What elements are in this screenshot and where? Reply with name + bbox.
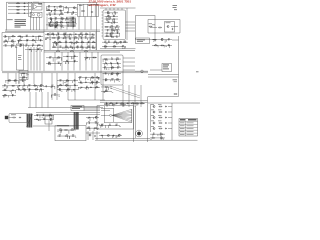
resistor R49: [18, 35, 22, 38]
section border top-left: [7, 2, 45, 30]
label: [137, 104, 138, 107]
wire: [67, 52, 69, 71]
label: [4, 96, 5, 99]
label: [122, 44, 124, 47]
label: [85, 87, 87, 90]
sub-board title label: [57, 125, 69, 126]
label: [113, 14, 115, 17]
resistor R57: [70, 50, 74, 53]
diode D15: [92, 34, 93, 35]
wire: [106, 42, 108, 44]
line filter box: [9, 114, 27, 123]
wire: [46, 17, 48, 30]
chopper transformer T4: [74, 112, 79, 130]
label: [96, 85, 97, 88]
capacitor C11: [58, 33, 59, 35]
wire: [86, 38, 88, 40]
wire: [116, 74, 118, 76]
resistor R71: [13, 79, 17, 82]
resistor R74: [65, 84, 69, 87]
resistor R59: [153, 38, 157, 41]
diode D41: [74, 56, 75, 57]
flyback winding wire: [131, 109, 133, 123]
wire: [81, 34, 83, 36]
wire: [89, 58, 91, 60]
bus wire H2: [2, 72, 148, 74]
diode D56: [85, 82, 86, 83]
diode D13: [75, 34, 76, 35]
label: [32, 38, 34, 41]
wire: [123, 65, 135, 67]
wire: [45, 33, 95, 35]
wire: [51, 10, 53, 12]
resistor R31: [65, 46, 69, 49]
label: [50, 25, 52, 28]
wire: [57, 85, 59, 88]
wire diagonal: [110, 88, 140, 98]
label: [68, 8, 69, 11]
label: [4, 36, 6, 39]
mains plug P1: [5, 116, 8, 119]
label: [163, 64, 169, 67]
wire: [102, 46, 126, 48]
sub-board box: [55, 126, 86, 141]
capacitor C2: [23, 6, 25, 7]
wire: [84, 58, 86, 61]
capacitor C12: [81, 37, 82, 39]
label: [108, 68, 110, 71]
label: [61, 16, 63, 19]
wire: [152, 39, 172, 41]
IC U301: [17, 44, 24, 70]
label: [108, 103, 109, 106]
label: [99, 78, 100, 81]
transistor Q16: [161, 39, 163, 41]
wire: [55, 25, 57, 27]
note label 3: [15, 22, 26, 25]
mains transformer T1: [27, 114, 33, 128]
title row value: [187, 122, 194, 125]
wire: [157, 134, 159, 136]
wire: [86, 116, 99, 118]
resistor R42: [104, 45, 108, 48]
pin wire: [113, 8, 115, 10]
label: [88, 4, 91, 7]
label: [119, 125, 121, 128]
section divider: [147, 97, 149, 143]
wire: [86, 127, 99, 129]
resistor R14: [50, 25, 54, 28]
wire: [168, 106, 172, 108]
diode D4: [54, 14, 55, 15]
resistor R6: [81, 10, 85, 13]
wire: [100, 48, 136, 50]
module box IF1: [19, 71, 28, 80]
label: [54, 22, 55, 25]
wire: [105, 12, 119, 14]
resistor R12: [59, 21, 63, 24]
wire: [50, 10, 52, 12]
resistor R96: [94, 127, 98, 130]
label: [116, 31, 118, 34]
transistor Q28: [153, 105, 155, 107]
label: [96, 80, 98, 83]
wire: [28, 45, 30, 47]
label: [4, 34, 5, 37]
wire: [98, 78, 100, 80]
label: [151, 109, 154, 112]
diode D21: [113, 16, 114, 17]
transistor Q801 horizontal output: [110, 114, 112, 116]
label: [111, 77, 113, 80]
wire: [89, 128, 91, 131]
wire: [111, 13, 113, 15]
wire: [91, 82, 93, 84]
pin wire: [102, 23, 104, 25]
resistor R38: [110, 32, 114, 35]
resistor R20: [85, 33, 89, 36]
wire: [23, 73, 25, 84]
wire: [89, 117, 91, 121]
label: [26, 34, 28, 37]
wire: [111, 36, 113, 38]
title row label: [180, 122, 185, 125]
label: [49, 12, 51, 15]
label: [106, 43, 107, 46]
label: [110, 74, 111, 77]
pin wire: [126, 21, 136, 23]
label: [49, 113, 51, 116]
wire: [51, 86, 53, 88]
label: [85, 35, 87, 38]
diode D53: [74, 85, 75, 86]
label: [152, 24, 155, 27]
label: [160, 132, 162, 135]
label: [18, 56, 21, 59]
wire: [122, 85, 124, 107]
wire: [44, 38, 46, 40]
label: [43, 117, 45, 120]
wire: [25, 49, 43, 51]
diode D75: [153, 134, 154, 135]
wire: [22, 86, 24, 89]
section border: [100, 7, 136, 9]
wire: [118, 33, 120, 36]
label: [116, 101, 118, 104]
wire: [71, 81, 73, 83]
label: [67, 87, 69, 90]
label: [88, 117, 89, 120]
resistor R5: [38, 3, 42, 6]
wire: [104, 80, 106, 82]
resistor R70: [7, 79, 11, 82]
wire: [7, 73, 9, 84]
wire: [123, 103, 125, 106]
wire: [16, 89, 44, 91]
wire: [52, 115, 54, 119]
label: [91, 35, 93, 38]
diode D62: [106, 63, 107, 64]
capacitor C23: [57, 63, 59, 64]
wire: [51, 94, 60, 96]
label: [168, 43, 170, 46]
bus wire GND: [5, 31, 100, 33]
capacitor C6: [53, 6, 55, 7]
wire: [96, 131, 98, 140]
label: [18, 40, 20, 43]
wire: [67, 34, 69, 37]
wire: [90, 38, 92, 40]
wire: [28, 90, 30, 92]
capacitor C32: [85, 77, 86, 79]
label: [95, 120, 97, 123]
capacitor C31: [51, 86, 53, 87]
diode D39: [50, 57, 51, 58]
wire: [104, 102, 145, 104]
label: [111, 33, 113, 36]
wire: [164, 40, 166, 43]
label: [40, 83, 42, 86]
wire: [63, 60, 78, 62]
label: [82, 47, 83, 50]
wire: [46, 6, 64, 8]
wire: [14, 90, 16, 93]
wire: [66, 17, 68, 30]
label: [122, 47, 123, 50]
label: [63, 32, 65, 35]
wire: [48, 120, 50, 131]
label: [112, 23, 113, 26]
wire: [57, 135, 76, 137]
label: [107, 20, 109, 23]
wire bus: [150, 104, 152, 132]
wire: [57, 32, 59, 50]
wire: [117, 27, 119, 30]
wire: [115, 135, 117, 138]
resistor R36: [105, 25, 109, 28]
wire: [36, 86, 38, 89]
flyback section box: [97, 106, 134, 129]
wire: [64, 34, 66, 36]
wire: [31, 45, 33, 47]
wire: [60, 130, 62, 133]
wire: [116, 42, 118, 44]
label: [117, 65, 119, 68]
diode D52: [74, 80, 75, 81]
wire: [123, 57, 135, 59]
label: [48, 61, 50, 64]
label: [49, 55, 51, 58]
resistor R2: [16, 5, 20, 8]
label: [151, 125, 154, 128]
resistor R68: [22, 88, 26, 91]
diode D19: [60, 47, 61, 48]
diode D50: [18, 89, 19, 90]
wire: [103, 73, 122, 75]
capacitor C15: [114, 12, 116, 13]
wire: [86, 42, 88, 45]
label: [79, 4, 83, 7]
label: [16, 46, 17, 49]
wire: [34, 40, 36, 42]
pin wire: [102, 35, 104, 37]
winding wire: [87, 4, 89, 16]
module box X-ray: [136, 38, 150, 44]
wire: [46, 13, 64, 15]
label: [81, 45, 82, 48]
wire: [33, 125, 74, 127]
wire: [27, 47, 29, 71]
label: [120, 103, 121, 106]
section border: [28, 107, 103, 109]
resistor R92: [174, 93, 178, 96]
wire: [105, 35, 121, 37]
label: [59, 128, 61, 131]
resistor R91: [140, 102, 144, 105]
label: [96, 75, 97, 78]
wire: [37, 6, 41, 8]
resistor R46: [11, 35, 15, 38]
resistor R77: [96, 76, 100, 79]
label: [137, 39, 145, 42]
wire: [72, 26, 74, 28]
wire: [7, 36, 9, 40]
resistor R100: [65, 135, 69, 138]
label: [155, 43, 156, 46]
wire: [95, 32, 97, 50]
label: [104, 65, 106, 68]
label: [20, 43, 21, 46]
capacitor C7: [50, 21, 51, 23]
label: [108, 40, 110, 43]
label: [35, 87, 37, 90]
wire to bus: [30, 17, 32, 30]
wire: [48, 18, 76, 20]
title text: [188, 119, 197, 120]
wire: [93, 47, 95, 49]
wire: [71, 90, 73, 92]
wire: [113, 135, 115, 137]
diode D8: [68, 25, 69, 26]
wire: [74, 90, 76, 92]
wire: [103, 91, 105, 93]
wire: [68, 136, 70, 139]
capacitor C33: [80, 82, 82, 83]
wire: [17, 81, 19, 84]
capacitor C1: [23, 3, 25, 4]
wire: [150, 133, 165, 135]
label: [118, 133, 120, 136]
label: [88, 120, 90, 123]
resistor R40: [113, 41, 117, 44]
resistor R103: [159, 116, 163, 119]
label: [71, 128, 73, 131]
wire: [9, 117, 13, 119]
diode D10: [66, 7, 67, 8]
resistor R18: [51, 33, 55, 36]
wire: [110, 16, 112, 19]
label: [76, 40, 77, 43]
wire diagonal: [110, 86, 140, 96]
resistor R51: [18, 39, 22, 42]
capacitor C28: [40, 88, 41, 90]
wire: [56, 42, 58, 46]
wire: [104, 47, 106, 49]
wire: [5, 80, 26, 82]
wire: [113, 108, 115, 122]
resistor R106: [159, 133, 163, 136]
diode D60: [54, 94, 55, 95]
wire: [78, 86, 100, 88]
wire: [111, 19, 113, 22]
wire: [143, 70, 148, 72]
wire: [84, 108, 100, 110]
pin wire: [102, 14, 104, 16]
resistor R80: [104, 58, 108, 61]
label: [111, 65, 113, 68]
wire: [61, 19, 63, 21]
label: [18, 87, 20, 90]
diode D49: [29, 85, 30, 86]
section top border: [44, 2, 97, 4]
wire: [171, 26, 178, 28]
resistor R81: [116, 58, 120, 61]
label: [3, 42, 5, 45]
wire: [150, 27, 157, 29]
wire: [45, 37, 95, 39]
label: [43, 113, 45, 116]
pin wire: [126, 27, 136, 29]
capacitor C25: [12, 94, 13, 96]
label: [151, 114, 154, 117]
wire: [165, 40, 167, 42]
label: [86, 85, 88, 88]
capacitor C38: [126, 103, 128, 104]
wire: [68, 130, 70, 134]
wire: [52, 58, 54, 62]
wire: [54, 17, 56, 30]
wire: [37, 119, 39, 121]
wire: [62, 47, 64, 49]
transistor Q21: [105, 79, 107, 81]
junction node: [26, 5, 29, 8]
wire: [46, 62, 62, 64]
label: [49, 22, 51, 25]
wire: [18, 40, 20, 43]
label: [59, 87, 61, 90]
label: [116, 36, 118, 39]
label: [158, 120, 162, 123]
wire: [59, 14, 61, 16]
label: [37, 47, 39, 50]
wire: [64, 7, 77, 9]
wire: [123, 61, 135, 63]
resistor R87: [109, 102, 113, 105]
wire: [7, 96, 9, 98]
resistor R102: [159, 111, 163, 114]
resistor R60: [154, 44, 158, 47]
transistor Q2: [50, 18, 52, 20]
section divider: [43, 2, 45, 71]
wire: [3, 96, 5, 98]
wire: [60, 26, 62, 28]
bus wire: [44, 50, 135, 52]
resistor R21: [52, 36, 56, 39]
diode D65: [105, 73, 106, 74]
junction node: [26, 9, 29, 12]
label: [99, 123, 100, 126]
diode D24: [114, 22, 115, 23]
